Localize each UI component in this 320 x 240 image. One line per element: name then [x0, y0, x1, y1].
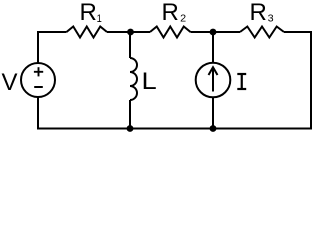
voltage source minus sign — [34, 86, 43, 88]
wire R2 to R3 through node B — [191, 31, 241, 33]
wire right vertical — [310, 31, 312, 130]
current source arrow shaft — [212, 68, 214, 92]
wire left vertical top (corner to V source) — [37, 31, 39, 64]
svg-text:V: V — [2, 69, 18, 96]
svg-text:L: L — [142, 68, 157, 95]
wire inductor top lead — [129, 32, 131, 58]
voltage source plus sign — [34, 71, 43, 73]
inductor L coil — [130, 58, 137, 100]
node dot bottom L junction — [127, 125, 134, 132]
node A dot (top, R1/R2/L junction) — [127, 29, 134, 36]
wire R1 to R2 through node A — [107, 31, 150, 33]
wire bottom — [37, 128, 312, 130]
voltage source V circle — [21, 63, 55, 97]
wire R3 to top right corner — [284, 31, 311, 33]
svg-text:3: 3 — [268, 13, 274, 25]
node B dot (top, R2/R3/I junction) — [210, 29, 217, 36]
wire current source top lead — [212, 32, 214, 63]
wire inductor bottom lead — [129, 100, 131, 129]
svg-text:R: R — [250, 0, 267, 26]
resistor R2 — [150, 27, 191, 38]
svg-text:R: R — [80, 0, 97, 26]
current source arrow head — [209, 67, 218, 75]
wire current source bottom lead — [212, 97, 214, 128]
svg-text:2: 2 — [180, 13, 186, 25]
label I (serif style with crossbars) — [237, 74, 246, 89]
wire top segment left corner to R1 — [37, 31, 67, 33]
current source I circle — [196, 63, 231, 98]
resistor R3 — [240, 27, 284, 38]
resistor R1 — [67, 27, 108, 38]
node dot bottom I junction — [210, 125, 217, 132]
svg-text:1: 1 — [97, 13, 102, 25]
svg-text:R: R — [162, 0, 179, 26]
wire left vertical bottom (V source to bottom corner) — [37, 96, 39, 130]
